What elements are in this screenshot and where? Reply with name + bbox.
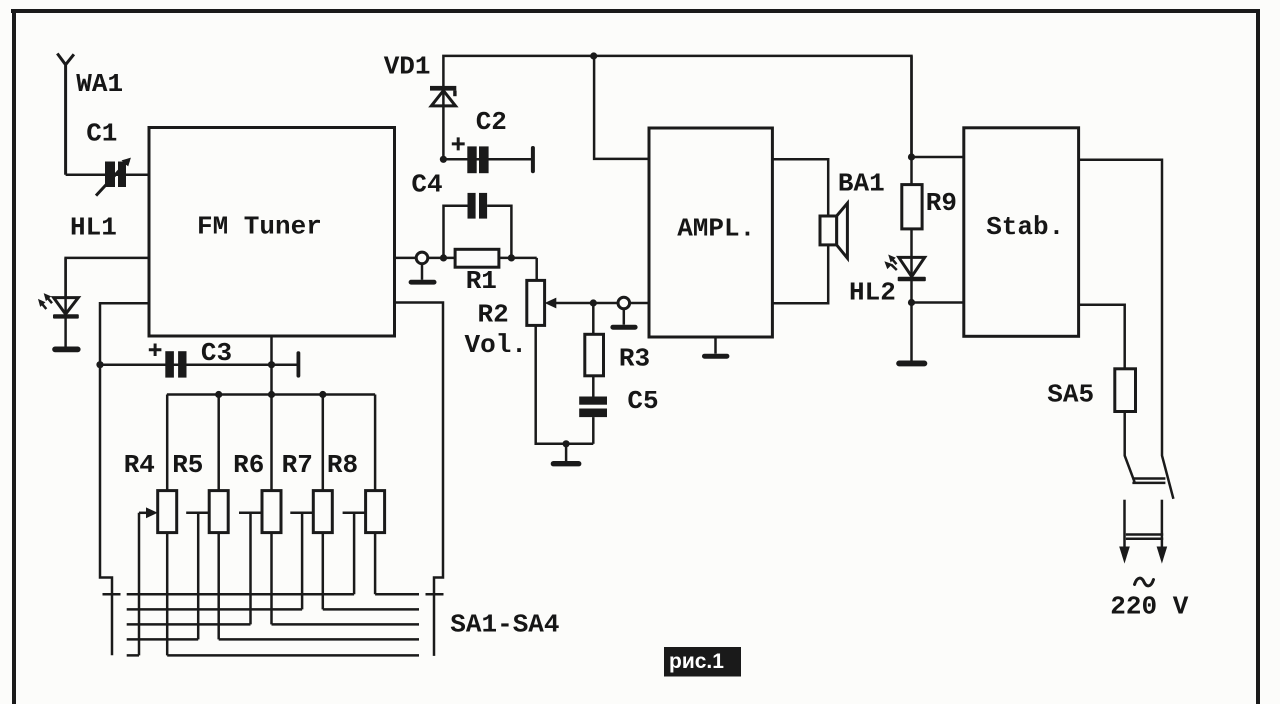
- capacitor C3 wire: [100, 363, 298, 366]
- terminal circle at AMPL input: [618, 297, 630, 309]
- potentiometer R2: [527, 280, 545, 325]
- top supply wire: [443, 56, 911, 159]
- wire supply down through R9 HL2: [910, 56, 913, 361]
- label Vol.: [465, 330, 527, 360]
- wire R5 bottom stem: [217, 533, 220, 640]
- capacitor C2 wire: [443, 158, 531, 161]
- resistor R6: [262, 491, 281, 533]
- label C5: [627, 386, 658, 416]
- svg-text:C5: C5: [627, 386, 658, 416]
- wire R2 bottom: [536, 325, 594, 443]
- wire bus to R7: [322, 395, 325, 491]
- svg-text:R2: R2: [478, 300, 509, 330]
- wire node to Stab upper: [912, 156, 964, 159]
- wire tuner right down to switch bracket: [395, 303, 444, 656]
- switch bus line 1: [127, 593, 419, 596]
- svg-text:HL2: HL2: [849, 278, 896, 308]
- label HL1: [70, 213, 117, 243]
- switch bus line 2: [127, 608, 419, 611]
- block Stab: [964, 128, 1079, 336]
- capacitor C4 plates: [468, 193, 488, 219]
- ground AMPL bottom: [702, 337, 729, 359]
- resistor R4: [158, 491, 177, 533]
- ground under AMPL input circle: [610, 309, 637, 330]
- svg-text:рис.1: рис.1: [669, 650, 724, 673]
- border frame top: [11, 9, 1260, 13]
- resistor R8: [366, 491, 385, 533]
- node R9 top: [908, 153, 915, 160]
- svg-text:SA5: SA5: [1047, 380, 1094, 410]
- LED HL1: [52, 258, 80, 352]
- wire antenna to C1 to tuner: [66, 174, 150, 177]
- label R3: [619, 344, 650, 374]
- diode VD1: [430, 86, 457, 106]
- resistor R1: [455, 249, 499, 267]
- node C3 left: [96, 361, 103, 368]
- HL1 light arrows: [38, 293, 52, 309]
- svg-text:R8: R8: [327, 450, 358, 480]
- svg-text:R4: R4: [124, 450, 155, 480]
- resistor R7: [313, 491, 332, 533]
- svg-text:FM Tuner: FM Tuner: [197, 212, 322, 242]
- wire tuner to HL1: [66, 258, 150, 298]
- label R5: [172, 450, 203, 480]
- connector bar lower: [1126, 535, 1163, 539]
- border frame left: [12, 9, 16, 704]
- node bottom ground: [563, 440, 570, 447]
- capacitor C3 plates: [165, 351, 186, 377]
- R2 wiper arrow: [545, 298, 594, 309]
- C2 plus sign: [452, 137, 465, 150]
- wire C5 down to bottom: [592, 417, 595, 444]
- capacitor C1 (variable): [96, 158, 131, 196]
- wire Stab right lower to fuse: [1079, 305, 1135, 482]
- switch bus line 3: [127, 623, 419, 626]
- label R8: [327, 450, 358, 480]
- wire tuner to R1 row: [395, 257, 537, 260]
- svg-text:220 V: 220 V: [1110, 592, 1188, 622]
- label C1: [86, 119, 117, 149]
- svg-text:AMPL.: AMPL.: [677, 214, 755, 244]
- label R6: [233, 450, 264, 480]
- svg-text:VD1: VD1: [384, 52, 431, 82]
- R4 wiper arrow: [139, 507, 158, 655]
- label C2: [476, 107, 507, 137]
- switch bracket tick right: [426, 593, 444, 596]
- wire R1 to R2 top: [535, 258, 538, 281]
- svg-text:R5: R5: [172, 450, 203, 480]
- label SA5: [1047, 380, 1094, 410]
- svg-text:WA1: WA1: [76, 69, 123, 99]
- resistor R5: [209, 491, 228, 533]
- LED HL2: [898, 257, 926, 281]
- C2 terminal bar: [531, 146, 535, 173]
- node bus R7: [319, 391, 326, 398]
- resistor R3: [585, 334, 604, 376]
- block AMPL: [649, 128, 772, 337]
- wire R4 bottom stem: [166, 533, 169, 656]
- wires AMPL to speaker: [772, 159, 828, 303]
- svg-text:R7: R7: [282, 450, 313, 480]
- R7 tap: [290, 513, 313, 610]
- wire tuner bottom through bus to R6: [270, 336, 273, 624]
- label C3: [201, 338, 232, 368]
- antenna WA1: [57, 54, 74, 175]
- node R2 wiper: [590, 299, 597, 306]
- wire bus to R8: [374, 395, 377, 491]
- switch bus line 5: [127, 654, 419, 657]
- wire wiper to AMPL: [593, 302, 649, 305]
- connector bar upper: [1132, 479, 1165, 483]
- node C3 right: [268, 361, 275, 368]
- block FM Tuner: [149, 128, 395, 337]
- node VD1 bottom: [440, 156, 447, 163]
- node R1 right: [508, 254, 515, 261]
- label C4: [411, 170, 442, 200]
- ground at R2 bottom: [551, 444, 582, 467]
- svg-text:BA1: BA1: [838, 169, 885, 199]
- AC tilde symbol: [1135, 578, 1154, 586]
- resistor R9: [902, 185, 922, 229]
- C3 terminal bar: [297, 351, 301, 377]
- label VD1: [384, 52, 431, 82]
- label R2: [478, 300, 509, 330]
- fuse SA5: [1115, 369, 1136, 412]
- R5 tap: [186, 513, 209, 640]
- wire Stab right upper: [1079, 160, 1174, 499]
- ground below HL2: [896, 361, 927, 367]
- label BA1: [838, 169, 885, 199]
- R6 tap: [239, 513, 262, 625]
- node bus R6: [268, 391, 275, 398]
- HL2 light arrows: [884, 255, 896, 271]
- wire bus to R4: [166, 395, 169, 491]
- plug pin left: [1119, 500, 1130, 564]
- svg-text:R3: R3: [619, 344, 650, 374]
- wire R3 to C5: [592, 376, 595, 397]
- svg-text:Stab.: Stab.: [986, 212, 1064, 242]
- switch bus line 4: [127, 638, 419, 641]
- plug pin right: [1157, 500, 1168, 564]
- caption fig.1: [664, 647, 741, 677]
- label R4: [124, 450, 155, 480]
- label SA1-SA4: [450, 610, 559, 640]
- svg-text:SA1-SA4: SA1-SA4: [450, 610, 559, 640]
- wire node to Stab lower: [912, 301, 964, 304]
- resistor bus top: [167, 393, 375, 396]
- label 220 V: [1110, 592, 1188, 622]
- label R1: [466, 266, 497, 296]
- border frame right: [1256, 11, 1260, 704]
- svg-text:Vol.: Vol.: [465, 330, 527, 360]
- svg-text:C1: C1: [86, 119, 117, 149]
- switch bracket tick left: [103, 593, 121, 596]
- speaker BA1: [820, 203, 847, 258]
- node HL2 bottom: [908, 299, 915, 306]
- capacitor C4 loop: [444, 206, 512, 258]
- capacitor C5: [579, 397, 607, 418]
- wire tuner left down to switch bracket: [100, 303, 149, 655]
- label R9: [926, 188, 957, 218]
- label WA1: [76, 69, 123, 99]
- wire wiper node down to R3: [592, 303, 595, 334]
- wire R8 bottom stem: [374, 533, 377, 595]
- wire bus to R5: [217, 395, 220, 491]
- node top wire junction: [590, 52, 597, 59]
- terminal circle at R1 row: [416, 252, 428, 264]
- wire R7 bottom stem: [322, 533, 325, 610]
- C3 plus sign: [149, 344, 162, 357]
- label R7: [282, 450, 313, 480]
- node bus R5: [215, 391, 222, 398]
- ground under circle: [409, 264, 437, 285]
- node R1 left: [440, 254, 447, 261]
- wire top junction to AMPL: [594, 56, 649, 159]
- svg-text:C2: C2: [476, 107, 507, 137]
- svg-text:HL1: HL1: [70, 213, 117, 243]
- svg-text:R9: R9: [926, 188, 957, 218]
- svg-text:R1: R1: [466, 266, 497, 296]
- label HL2: [849, 278, 896, 308]
- svg-text:C3: C3: [201, 338, 232, 368]
- R8 tap: [343, 513, 366, 594]
- svg-text:R6: R6: [233, 450, 264, 480]
- svg-text:C4: C4: [411, 170, 442, 200]
- capacitor C2 plates: [467, 146, 488, 173]
